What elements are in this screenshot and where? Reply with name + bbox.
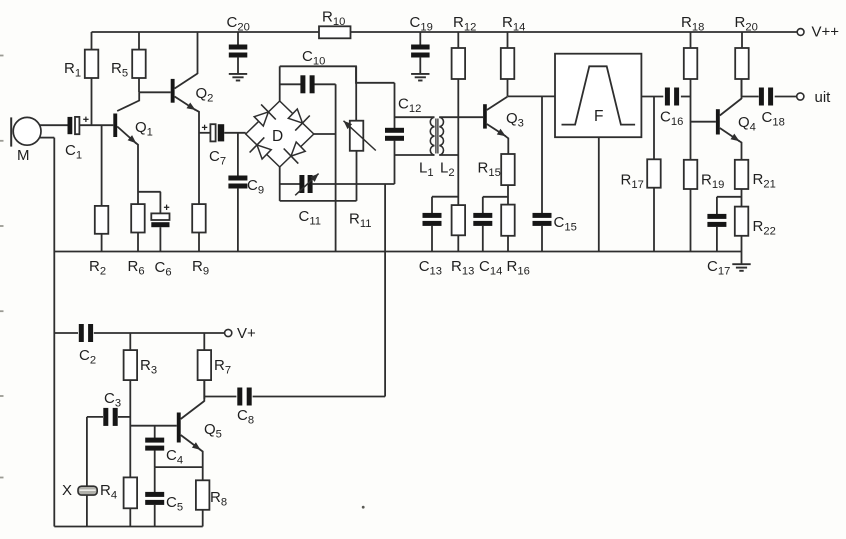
svg-text:R7: R7 [214,357,231,377]
svg-text:D: D [272,128,283,145]
transistor Q1 [113,92,153,204]
resistor R20 [735,14,758,97]
wire [279,66,281,101]
svg-text:C19: C19 [410,14,433,34]
wire [439,154,458,156]
resistor R21 [735,160,776,207]
resistor R14 [501,14,525,96]
wire [395,116,435,118]
wire [598,137,600,251]
ground [411,74,429,81]
svg-text:R2: R2 [89,258,106,278]
wire [362,506,365,509]
svg-text:R18: R18 [681,14,704,34]
svg-text:R6: R6 [128,258,145,278]
svg-text:C18: C18 [762,109,785,129]
wire [40,138,55,527]
resistor R18 [681,14,704,160]
node D label [272,128,283,145]
filter F [555,54,641,138]
wire [280,66,395,83]
wire [439,116,483,118]
transistor Q3 [483,97,524,154]
resistor R22 [735,207,776,252]
capacitor C17 [707,197,742,278]
transistor Q4 [691,79,756,160]
svg-text:R17: R17 [621,172,644,192]
capacitor C1 [65,117,89,162]
resistor R1 [64,32,98,125]
svg-text:C13: C13 [419,258,442,278]
svg-text:L1: L1 [419,160,434,180]
diode bridge D outline [246,101,314,167]
capacitor C19 [410,14,433,74]
svg-text:L2: L2 [440,160,455,180]
resistor R17 [621,97,661,252]
svg-text:uit: uit [815,89,832,106]
svg-text:C17: C17 [707,258,730,278]
resistor R19 [684,160,724,252]
resistor R13 [451,205,474,278]
wire [314,133,336,135]
resistor R3 [124,333,157,477]
svg-text:V++: V++ [812,23,840,40]
svg-text:C5: C5 [166,494,183,514]
svg-text:V+: V+ [237,325,256,342]
svg-text:C2: C2 [79,347,96,367]
svg-text:C11: C11 [299,208,321,228]
wire [641,96,663,98]
terminal uit [797,89,831,106]
wire ground rail [54,251,741,253]
svg-text:C8: C8 [237,407,254,427]
resistor R16 [501,205,530,278]
inductor L1 [419,117,435,179]
capacitor C2 [54,324,224,367]
resistor R15 [478,154,515,205]
svg-text:Q4: Q4 [738,114,756,134]
svg-text:C15: C15 [554,214,577,234]
resistor R7 [198,333,231,399]
resistor R11 [344,66,376,230]
wire [280,167,357,201]
wire [384,184,386,397]
diode D4 [250,137,272,159]
resistor R6 [128,204,145,278]
svg-text:C3: C3 [104,390,121,410]
inductor L2 [439,117,454,179]
terminal V++ [797,23,839,40]
svg-text:M: M [17,147,30,164]
transistor Q5 [177,380,222,480]
transformer core [436,119,438,154]
svg-text:C12: C12 [398,96,421,116]
svg-text:R10: R10 [322,9,345,29]
capacitor C10 [280,48,336,93]
svg-text:R22: R22 [753,218,776,238]
svg-text:R21: R21 [753,171,776,191]
capacitor C15 [533,96,577,251]
svg-text:C9: C9 [247,177,264,197]
svg-text:R19: R19 [701,172,724,192]
capacitor C8 [204,388,385,427]
svg-text:F: F [594,108,603,125]
svg-text:R16: R16 [507,258,530,278]
capacitor C6 [138,192,172,279]
svg-text:R12: R12 [453,14,476,34]
wire [130,425,177,427]
resistor R2 [89,125,108,277]
svg-text:R1: R1 [64,60,81,80]
resistor R5 [111,32,146,92]
microphone M [11,117,41,164]
wire bottom rail [54,526,202,528]
svg-text:X: X [62,482,72,499]
resistor R10 [319,9,351,39]
capacitor C11 [280,174,395,228]
wire [79,124,113,126]
svg-text:C20: C20 [227,14,250,34]
svg-text:C4: C4 [166,447,183,467]
svg-text:C14: C14 [479,258,502,278]
svg-text:R3: R3 [140,357,157,377]
terminal V+ [225,325,256,342]
capacitor C12 [385,83,421,184]
capacitor C7 [199,124,246,167]
resistor R9 [192,204,209,278]
capacitor C3 [87,390,130,426]
resistor R12 [452,14,477,205]
crystal X [62,417,97,527]
svg-text:R14: R14 [502,14,525,34]
svg-text:Q3: Q3 [506,110,524,130]
svg-text:R8: R8 [210,489,227,509]
svg-text:Q2: Q2 [196,85,214,105]
capacitor C5 [145,467,183,526]
resistor R8 [196,480,227,526]
svg-text:C7: C7 [209,148,226,168]
wire [395,154,435,156]
svg-text:C10: C10 [302,48,325,68]
resistor R4 [100,477,137,526]
svg-text:C1: C1 [65,142,82,162]
diode D3 [284,142,306,164]
svg-text:C16: C16 [660,109,683,129]
ground [732,252,750,271]
node V++ rail [92,31,797,33]
svg-text:Q1: Q1 [135,119,153,139]
wire [40,124,68,126]
capacitor C18 [742,88,797,129]
svg-text:R15: R15 [478,160,501,180]
capacitor C16 [660,88,691,129]
transistor Q2 [139,32,213,204]
svg-text:C6: C6 [155,259,172,279]
capacitor C9 [228,133,264,252]
svg-text:Q5: Q5 [204,421,222,441]
wire [508,95,556,97]
wire [155,466,203,468]
wire [335,84,337,251]
ground [229,74,247,81]
svg-text:R4: R4 [100,482,117,502]
capacitor C14 [473,197,508,278]
wire [0,56,4,478]
svg-text:R20: R20 [735,14,758,34]
diode D1 [254,104,276,126]
svg-text:R5: R5 [111,60,128,80]
svg-text:R13: R13 [451,258,474,278]
diode D2 [288,109,310,131]
capacitor C20 [227,14,250,74]
svg-text:R11: R11 [349,211,371,231]
svg-text:R9: R9 [192,258,209,278]
capacitor C4 [145,426,183,467]
capacitor C13 [419,197,459,278]
